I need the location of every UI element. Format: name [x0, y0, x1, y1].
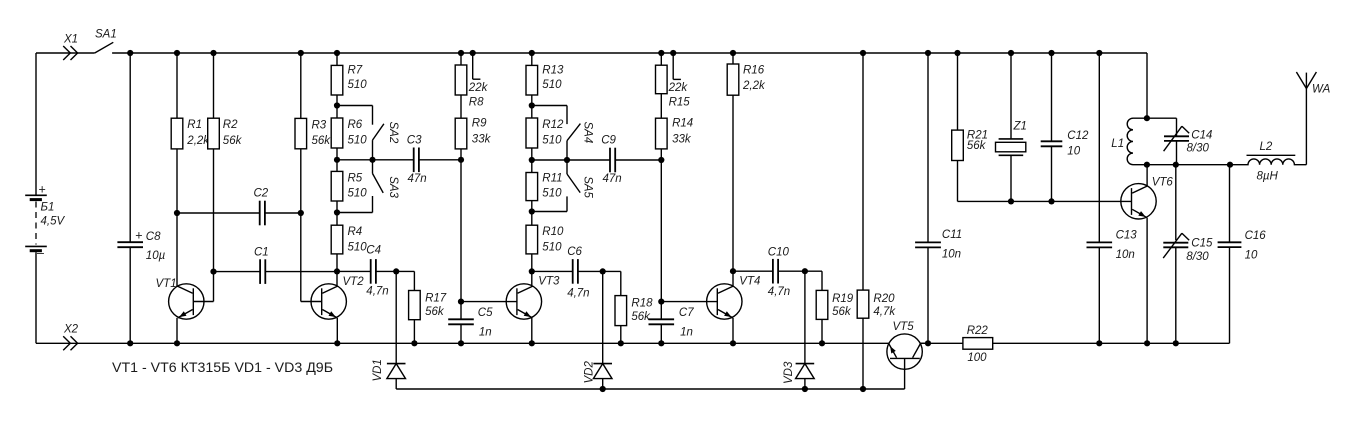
antenna WA	[1296, 72, 1330, 165]
svg-text:510: 510	[542, 242, 562, 254]
transistor VT6	[1121, 165, 1174, 347]
resistor R17	[396, 271, 447, 346]
inductor L2	[1230, 141, 1306, 183]
svg-text:22k: 22k	[668, 82, 689, 94]
capacitor C7	[649, 302, 695, 347]
svg-text:L2: L2	[1260, 141, 1273, 153]
svg-text:R20: R20	[873, 293, 895, 305]
svg-text:56k: 56k	[223, 135, 243, 147]
transistor VT3	[506, 276, 560, 347]
diode VD1	[372, 271, 406, 389]
node R14-C9	[658, 157, 664, 163]
svg-text:510: 510	[348, 188, 368, 200]
diode VD3	[783, 271, 814, 392]
svg-text:C11: C11	[942, 229, 962, 241]
node VT3 base	[458, 299, 517, 305]
transistor VT4	[707, 271, 761, 346]
capacitor C13	[1087, 50, 1138, 347]
resistor R15	[656, 50, 691, 108]
wire R3-VT2 base	[301, 149, 322, 302]
resistor R7	[331, 50, 367, 106]
svg-text:VT5: VT5	[893, 321, 915, 333]
capacitor C5	[448, 302, 493, 347]
node VT1 base	[210, 269, 216, 275]
resistor R5	[331, 160, 367, 201]
svg-text:R7: R7	[348, 65, 363, 77]
capacitor C2	[177, 188, 304, 226]
svg-text:10n: 10n	[942, 248, 961, 260]
svg-text:R8: R8	[469, 96, 484, 108]
svg-text:+: +	[39, 183, 46, 197]
svg-text:4,7n: 4,7n	[768, 286, 790, 298]
svg-text:56k: 56k	[312, 135, 332, 147]
svg-text:10: 10	[1245, 250, 1258, 262]
svg-text:VT2: VT2	[343, 276, 365, 288]
node R5-R4	[334, 201, 340, 216]
connector X1	[63, 34, 78, 61]
svg-text:33k: 33k	[472, 133, 492, 145]
svg-text:SA5: SA5	[582, 176, 594, 198]
svg-text:VT1: VT1	[156, 278, 177, 290]
capacitor C14	[1147, 118, 1213, 165]
resistor R2	[208, 50, 243, 149]
svg-text:56k: 56k	[631, 311, 651, 323]
svg-text:4,5V: 4,5V	[41, 216, 66, 228]
switch SA1	[95, 29, 117, 54]
svg-text:510: 510	[542, 135, 562, 147]
svg-text:22k: 22k	[468, 82, 489, 94]
capacitor C10	[733, 247, 808, 299]
resistor R19	[805, 271, 854, 346]
svg-text:SA2: SA2	[387, 122, 399, 144]
svg-text:510: 510	[348, 135, 368, 147]
connector X2	[63, 324, 79, 351]
resistor R21	[952, 50, 988, 202]
svg-text:10µ: 10µ	[146, 250, 166, 262]
svg-text:–: –	[37, 246, 44, 260]
node SA common 1	[369, 157, 375, 163]
svg-text:C6: C6	[567, 246, 582, 258]
resistor R11	[526, 160, 563, 201]
svg-text:1n: 1n	[479, 326, 492, 338]
svg-text:C16: C16	[1245, 230, 1267, 242]
svg-text:2,2k: 2,2k	[742, 80, 766, 92]
svg-text:4,7n: 4,7n	[567, 288, 589, 300]
svg-text:SA1: SA1	[95, 29, 117, 41]
svg-text:VT1 - VT6 КТ315Б VD1 - VD3: VT1 - VT6 КТ315Б VD1 - VD3 Д9Б	[112, 360, 333, 376]
svg-text:C2: C2	[254, 188, 269, 200]
svg-text:C9: C9	[601, 135, 616, 147]
svg-text:56k: 56k	[832, 306, 852, 318]
svg-text:L1: L1	[1111, 138, 1124, 150]
wire left riser bottom	[35, 252, 37, 343]
svg-text:4,7n: 4,7n	[366, 286, 388, 298]
wire R2-node	[213, 149, 215, 272]
resistor R22	[963, 325, 993, 364]
svg-text:56k: 56k	[425, 306, 445, 318]
capacitor C12	[1041, 50, 1089, 205]
svg-text:VT3: VT3	[538, 276, 560, 288]
svg-text:R10: R10	[542, 226, 564, 238]
svg-text:R6: R6	[348, 119, 363, 131]
node R7-R6	[334, 102, 340, 108]
svg-text:C3: C3	[407, 135, 422, 147]
svg-text:WA: WA	[1312, 84, 1331, 96]
svg-text:C12: C12	[1067, 130, 1089, 142]
capacitor C11	[915, 50, 962, 343]
svg-text:47n: 47n	[603, 173, 622, 185]
svg-text:R1: R1	[187, 119, 202, 131]
svg-text:+: +	[135, 228, 142, 242]
wire R9-VT3 base	[460, 160, 462, 302]
svg-text:R17: R17	[425, 293, 447, 305]
inductor L1	[1111, 118, 1147, 165]
svg-text:56k: 56k	[967, 140, 987, 152]
resistor R18	[603, 271, 653, 346]
svg-text:R4: R4	[348, 226, 363, 238]
switch SA2	[337, 106, 399, 160]
svg-text:VD3: VD3	[783, 361, 795, 384]
svg-text:R3: R3	[312, 119, 327, 131]
svg-text:R9: R9	[472, 118, 487, 130]
wire R4-VT2 collector	[334, 254, 340, 287]
tap stub R15	[670, 50, 681, 80]
svg-text:C4: C4	[366, 245, 381, 257]
svg-text:100: 100	[967, 352, 987, 364]
svg-text:R18: R18	[631, 298, 653, 310]
wire base bus	[958, 200, 1132, 202]
tap stub R8	[470, 50, 481, 79]
svg-text:8/30: 8/30	[1187, 143, 1210, 155]
transistor VT2	[311, 276, 364, 346]
switch SA3	[337, 160, 399, 213]
svg-text:VD2: VD2	[584, 361, 596, 384]
wire left riser	[35, 53, 37, 195]
capacitor C8	[117, 50, 165, 347]
node SA common 2	[532, 157, 570, 163]
capacitor C6	[532, 246, 606, 300]
resistor R6	[331, 106, 367, 149]
svg-text:10n: 10n	[1116, 249, 1135, 261]
svg-text:R5: R5	[348, 172, 363, 184]
svg-text:R19: R19	[832, 293, 854, 305]
svg-text:C15: C15	[1191, 237, 1213, 249]
svg-text:510: 510	[348, 79, 368, 91]
resistor R8	[455, 50, 488, 108]
svg-text:R12: R12	[542, 119, 564, 131]
svg-text:8µH: 8µH	[1257, 171, 1279, 183]
node R6-R5	[334, 148, 340, 163]
switch SA4	[532, 106, 594, 161]
svg-text:SA4: SA4	[582, 122, 594, 144]
svg-text:10: 10	[1067, 146, 1080, 158]
resistor R12	[526, 106, 564, 149]
svg-text:VD1: VD1	[372, 359, 384, 381]
capacitor C16	[1218, 165, 1267, 262]
svg-text:VT6: VT6	[1152, 177, 1174, 189]
svg-text:2,2k: 2,2k	[186, 135, 210, 147]
svg-text:C1: C1	[254, 247, 269, 259]
node VT4 base	[658, 299, 717, 305]
caption parts list	[112, 360, 333, 376]
node R12-R11	[529, 148, 535, 163]
svg-text:X1: X1	[63, 34, 78, 46]
svg-text:C14: C14	[1191, 129, 1212, 141]
wire R1-VT1 collector	[174, 149, 180, 287]
resistor R9	[455, 95, 491, 160]
svg-text:R15: R15	[669, 96, 691, 108]
svg-text:510: 510	[542, 79, 562, 91]
svg-text:R22: R22	[967, 325, 989, 337]
svg-text:47n: 47n	[408, 173, 427, 185]
node R13-R12	[529, 102, 535, 108]
svg-text:X2: X2	[63, 324, 79, 336]
capacitor C3	[337, 135, 461, 186]
resistor R20	[857, 50, 896, 392]
svg-text:R13: R13	[542, 65, 564, 77]
battery B1	[25, 183, 65, 260]
svg-text:510: 510	[542, 188, 562, 200]
resistor R14	[656, 94, 694, 160]
svg-text:VT4: VT4	[739, 276, 760, 288]
capacitor C9	[567, 135, 661, 186]
svg-text:R14: R14	[672, 118, 693, 130]
svg-text:8/30: 8/30	[1186, 251, 1209, 263]
resistor R3	[295, 50, 331, 149]
svg-text:C5: C5	[478, 307, 493, 319]
node R9-C3	[458, 157, 464, 163]
resistor R13	[526, 50, 564, 106]
svg-text:R11: R11	[542, 172, 562, 184]
wire R14-VT4 base	[660, 160, 662, 302]
resistor R4	[331, 213, 367, 254]
svg-text:510: 510	[348, 242, 368, 254]
diode VD2	[584, 271, 612, 392]
capacitor C1	[214, 247, 338, 284]
svg-text:C13: C13	[1116, 229, 1138, 241]
node R11-R10	[529, 201, 535, 215]
resistor R16	[727, 50, 766, 274]
wire diode bus	[396, 388, 904, 390]
wire R10-VT3 collector	[529, 254, 535, 287]
svg-text:C8: C8	[146, 231, 161, 243]
crystal Z1	[996, 50, 1027, 205]
svg-text:R2: R2	[223, 119, 238, 131]
svg-text:SA3: SA3	[387, 176, 399, 198]
transistor VT5	[887, 321, 931, 389]
wire top rail	[36, 53, 1147, 118]
svg-text:1n: 1n	[680, 326, 693, 338]
capacitor C15	[1163, 165, 1213, 347]
switch SA5	[532, 160, 594, 212]
svg-text:4,7k: 4,7k	[873, 306, 896, 318]
svg-text:Б1: Б1	[41, 202, 55, 214]
svg-text:R16: R16	[743, 64, 765, 76]
wire bottom rail	[36, 247, 1230, 343]
svg-text:C7: C7	[679, 307, 694, 319]
resistor R10	[526, 212, 564, 254]
svg-text:C10: C10	[768, 247, 790, 259]
svg-text:Z1: Z1	[1013, 121, 1027, 133]
node tank bottom	[1144, 162, 1233, 168]
svg-text:33k: 33k	[672, 133, 692, 145]
capacitor C4	[337, 245, 399, 298]
node tank top	[1144, 115, 1150, 121]
resistor R1	[171, 50, 210, 149]
transistor VT1	[156, 272, 214, 347]
